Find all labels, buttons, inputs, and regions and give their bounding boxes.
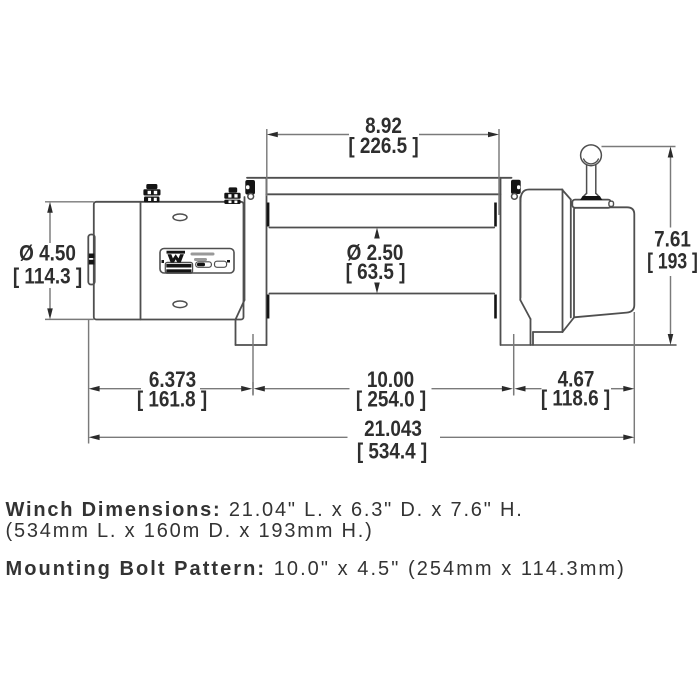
svg-text:[ 63.5 ]: [ 63.5 ] [346,260,406,285]
svg-text:[ 254.0 ]: [ 254.0 ] [356,387,426,412]
svg-text:[ 226.5 ]: [ 226.5 ] [348,133,418,158]
svg-text:[ 161.8 ]: [ 161.8 ] [137,387,207,412]
svg-text:[ 114.3 ]: [ 114.3 ] [13,264,82,289]
svg-text:7.61: 7.61 [654,227,691,252]
svg-text:[ 193 ]: [ 193 ] [647,250,698,275]
svg-text:[ 118.6 ]: [ 118.6 ] [541,386,610,411]
svg-text:Ø 4.50: Ø 4.50 [19,241,76,266]
svg-text:[ 534.4 ]: [ 534.4 ] [357,439,427,464]
svg-text:21.043: 21.043 [364,417,422,442]
